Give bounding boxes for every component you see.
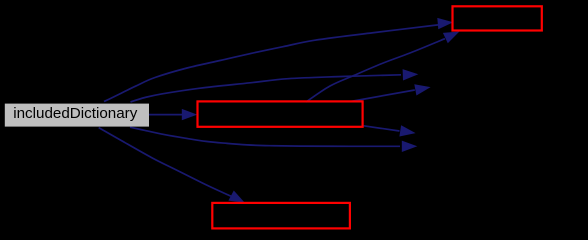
svg-text:includedDictionary: includedDictionary [13,105,138,122]
